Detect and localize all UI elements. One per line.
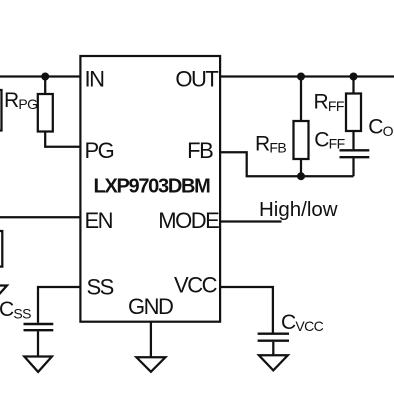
svg-text:OUT: OUT bbox=[175, 66, 218, 91]
capacitor C_FF bbox=[340, 150, 370, 157]
wire C_FF to FB net bbox=[352, 158, 354, 176]
wire VCC bbox=[220, 287, 273, 333]
wire PG bbox=[45, 132, 80, 147]
wire C_VCC to ground bbox=[272, 342, 274, 356]
op IC U1 LXP9703DBM body bbox=[80, 56, 220, 322]
resistor R_FF bbox=[346, 94, 361, 132]
svg-text:High/low: High/low bbox=[259, 198, 338, 221]
wire SS bbox=[38, 287, 80, 323]
node FB junction bbox=[297, 172, 305, 180]
wire GND pin bbox=[150, 322, 152, 358]
resistor R_PG bbox=[38, 94, 53, 132]
ground (below C_SS) bbox=[24, 357, 52, 372]
wire IN bbox=[0, 75, 80, 77]
ground (cut off at left edge) bbox=[0, 286, 7, 302]
node OUT junction 2 bbox=[350, 73, 358, 81]
resistor (cut off at left edge, input divider) bbox=[0, 90, 2, 131]
wire OUT to R_FF bbox=[352, 77, 354, 94]
wire EN bbox=[0, 216, 80, 218]
resistor (cut off at left edge, EN branch) bbox=[0, 231, 2, 267]
svg-text:IN: IN bbox=[85, 66, 105, 91]
svg-text:MODE: MODE bbox=[158, 208, 219, 233]
ground (below C_VCC) bbox=[259, 355, 288, 370]
svg-text:FB: FB bbox=[187, 138, 213, 163]
wire OUT to R_FB bbox=[300, 77, 302, 122]
wire C_SS to ground bbox=[37, 331, 39, 356]
svg-text:GND: GND bbox=[128, 294, 173, 319]
capacitor C_VCC bbox=[258, 334, 289, 341]
wire MODE bbox=[220, 220, 281, 222]
capacitor C_SS bbox=[24, 324, 54, 330]
wire OUT bbox=[220, 75, 394, 77]
wire R_FF to C_FF bbox=[352, 131, 354, 149]
node OUT junction 1 bbox=[297, 73, 305, 81]
resistor R_FB bbox=[294, 121, 309, 159]
wire dot to R_PG bbox=[44, 77, 46, 95]
svg-text:PG: PG bbox=[85, 138, 114, 163]
svg-text:EN: EN bbox=[85, 208, 113, 233]
svg-text:VCC: VCC bbox=[174, 272, 218, 297]
svg-text:SS: SS bbox=[87, 274, 114, 299]
ground (below GND pin) bbox=[136, 357, 165, 372]
svg-text:LXP9703DBM: LXP9703DBM bbox=[94, 175, 211, 197]
node IN junction bbox=[41, 73, 49, 81]
wire R_FB to FB net bbox=[300, 159, 302, 176]
wire FB bbox=[220, 152, 353, 176]
